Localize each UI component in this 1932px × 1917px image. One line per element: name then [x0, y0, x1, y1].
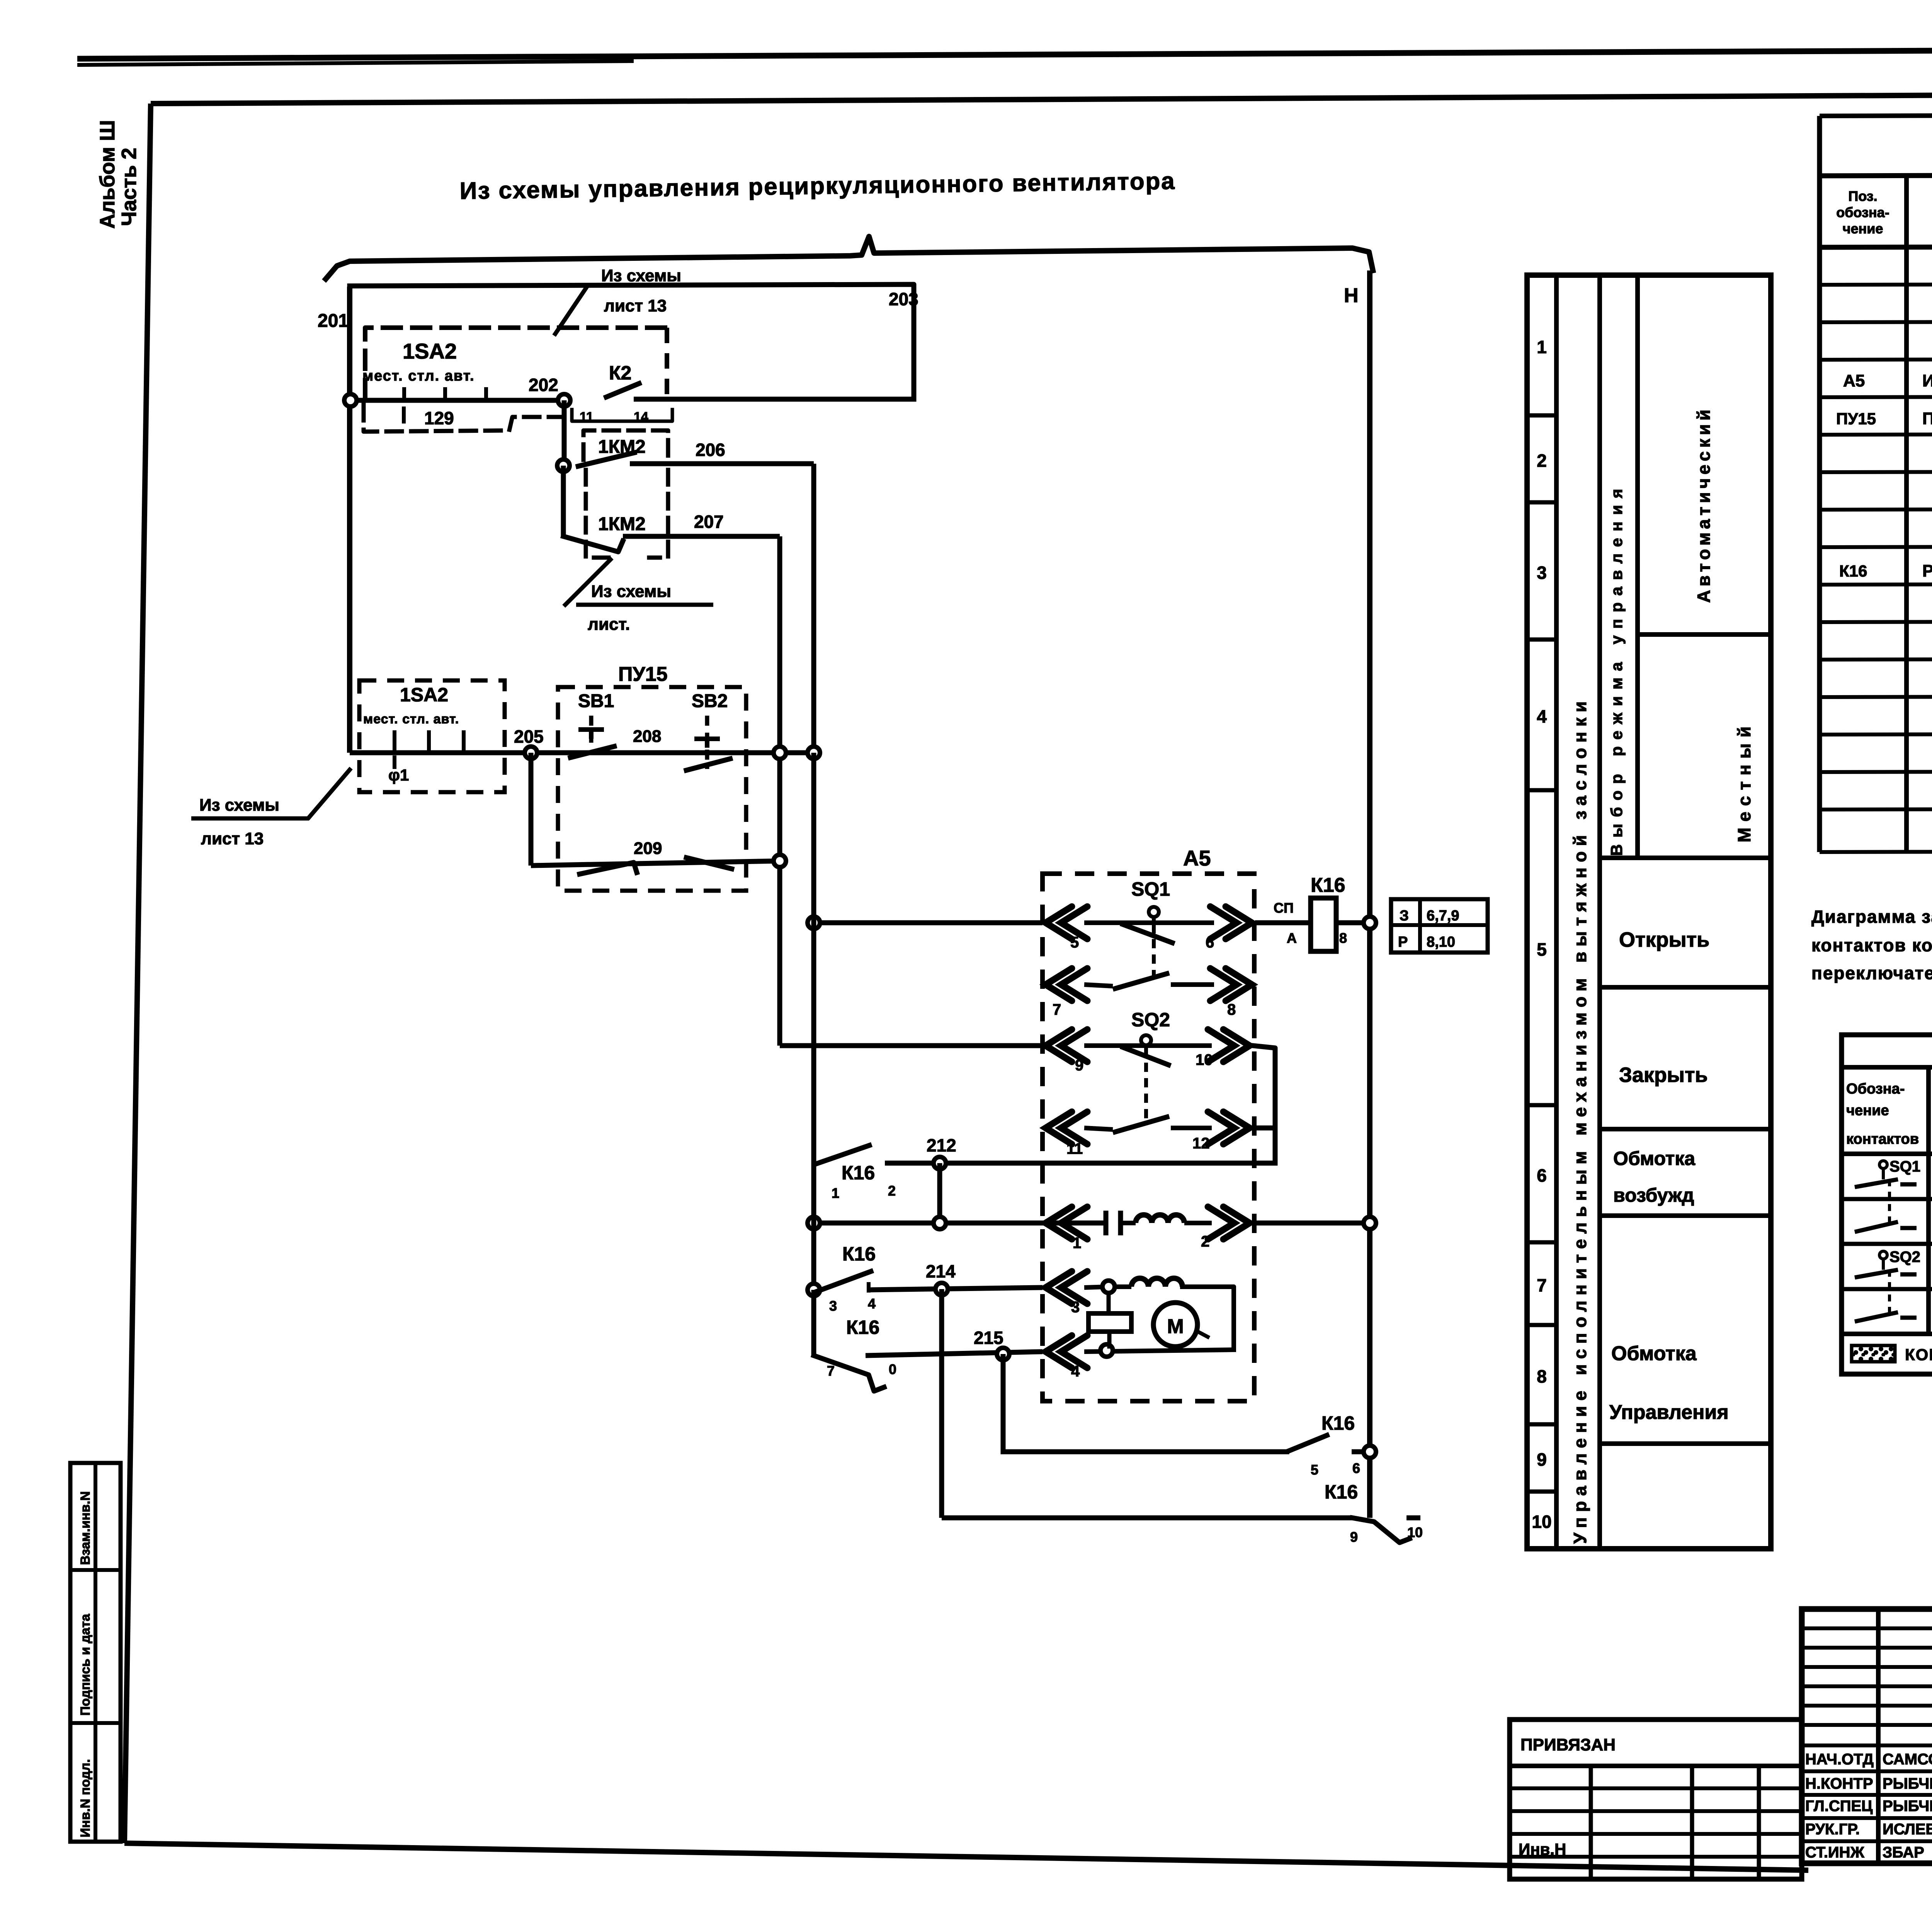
wire: main manual-control line net 205 — [350, 750, 814, 755]
svg-text:SQ1: SQ1 — [1889, 1158, 1920, 1175]
svg-text:207: 207 — [694, 512, 724, 532]
wire: coil to rail — [1336, 920, 1370, 925]
contact 1KM2 NC blade — [563, 536, 623, 552]
button station PU15 dashed box — [558, 687, 746, 891]
svg-text:К16: К16 — [1839, 562, 1867, 580]
node: junction 205 — [525, 747, 537, 759]
wire: left bus net 201 — [347, 287, 352, 753]
node: function table row number cells — [1527, 413, 1556, 418]
svg-text:214: 214 — [926, 1261, 956, 1281]
svg-text:А5: А5 — [1843, 371, 1865, 390]
wire: SB2 to V1/V2 — [726, 750, 814, 755]
wire: SQ2 second contact row 11-12 — [1046, 1112, 1087, 1144]
wire: riser 214 to K16 9-10 line — [939, 1289, 944, 1518]
wire: drop to net 207 — [561, 466, 566, 536]
node: junction on rail — [1364, 917, 1376, 929]
svg-text:209: 209 — [634, 839, 662, 858]
svg-text:ИСЛЕВА: ИСЛЕВА — [1883, 1821, 1932, 1838]
svg-text:Управления: Управления — [1609, 1401, 1729, 1424]
node: pointer "iz shemy list." — [565, 560, 611, 605]
svg-text:7: 7 — [1537, 1275, 1547, 1295]
svg-text:контактов: контактов — [1846, 1131, 1919, 1147]
svg-text:К16: К16 — [842, 1162, 875, 1184]
capacitor in excitation circuit — [1104, 1211, 1109, 1235]
node: legend kontakt zamknut — [1852, 1345, 1895, 1362]
wire: small terminal bracket under K2 — [572, 410, 672, 421]
svg-text:3: 3 — [1537, 563, 1547, 583]
svg-text:10: 10 — [1407, 1524, 1423, 1540]
svg-text:Р: Р — [1398, 934, 1408, 950]
svg-text:11: 11 — [1066, 1140, 1083, 1157]
wire: excitation winding line — [814, 1221, 1106, 1226]
svg-text:5: 5 — [1311, 1462, 1318, 1478]
svg-text:А: А — [1287, 930, 1297, 946]
svg-text:206: 206 — [696, 440, 725, 460]
svg-text:Из схемы: Из схемы — [601, 266, 681, 285]
svg-text:обозна-: обозна- — [1836, 204, 1889, 220]
svg-text:РУК.ГР.: РУК.ГР. — [1805, 1821, 1860, 1838]
switch 1SA2 lower section dashed box — [359, 680, 505, 792]
svg-text:3: 3 — [829, 1298, 837, 1314]
svg-text:А5: А5 — [1183, 846, 1211, 870]
svg-text:Реле РПУ-2-М36 440УЗБ, V-220: Реле РПУ-2-М36 440УЗБ, V-220 Б — [1922, 561, 1932, 580]
svg-text:212: 212 — [927, 1135, 956, 1155]
inductor: excitation winding — [1121, 1221, 1136, 1225]
svg-text:Н: Н — [1344, 284, 1359, 307]
wire: control winding top — [1084, 1287, 1109, 1288]
node: title block upper small rows — [1802, 1626, 1932, 1630]
wire: outer top border line — [77, 48, 1932, 59]
motor M — [1153, 1303, 1197, 1347]
svg-text:8: 8 — [1339, 930, 1347, 946]
svg-text:Из схемы: Из схемы — [199, 796, 279, 815]
svg-text:Подпись и дата: Подпись и дата — [78, 1613, 93, 1716]
svg-text:Н.КОНТР: Н.КОНТР — [1805, 1775, 1873, 1792]
svg-text:5: 5 — [1070, 934, 1079, 951]
svg-text:10: 10 — [1532, 1512, 1551, 1532]
wire: riser 215 to K16 5-6 line — [1001, 1354, 1006, 1452]
node: arrow pin 1 — [1046, 1207, 1087, 1239]
svg-text:З: З — [1400, 908, 1409, 924]
svg-text:СП: СП — [1274, 900, 1294, 916]
svg-text:5: 5 — [1537, 939, 1547, 959]
node: MEO table frame — [1842, 1035, 1932, 1374]
node: junction open line on V2 — [808, 917, 820, 929]
svg-text:ПУ15: ПУ15 — [1836, 410, 1876, 428]
svg-text:129: 129 — [424, 408, 454, 428]
svg-text:Инв.N подл.: Инв.N подл. — [78, 1759, 93, 1837]
wire: control winding bottom — [1084, 1350, 1234, 1352]
node: junction 202 — [558, 394, 570, 407]
svg-text:8: 8 — [1537, 1366, 1547, 1386]
node: junction brake tap — [1102, 1281, 1115, 1293]
svg-text:Часть 2: Часть 2 — [117, 148, 141, 226]
contact SB1 lower (NO) blade — [580, 862, 637, 874]
wire: 214 line to K16 9-10 — [942, 1516, 1352, 1521]
switch 1SA2 second row net 129 — [364, 405, 561, 432]
contact SQ1 symbol row1 — [1879, 1161, 1887, 1169]
node: function table frame — [1527, 275, 1771, 1549]
svg-text:202: 202 — [529, 375, 558, 395]
node: junction under brake — [1100, 1344, 1113, 1357]
svg-text:Взам.инв.N: Взам.инв.N — [78, 1491, 93, 1565]
node: signature rows — [1802, 1744, 1932, 1747]
svg-text:6: 6 — [1352, 1460, 1360, 1476]
svg-text:К16: К16 — [1311, 874, 1345, 896]
node: junction excitation on rail — [1364, 1217, 1376, 1229]
node: cell zakryt — [1600, 1127, 1771, 1131]
svg-text:9: 9 — [1350, 1529, 1358, 1545]
svg-text:φ1: φ1 — [388, 766, 409, 784]
svg-text:1SA2: 1SA2 — [403, 339, 457, 363]
svg-text:Обмотка: Обмотка — [1613, 1148, 1696, 1169]
svg-text:ПУ15: ПУ15 — [618, 663, 668, 685]
node: MEO row lines — [1842, 1197, 1932, 1201]
svg-text:Поз.: Поз. — [1848, 188, 1877, 204]
svg-text:К16: К16 — [842, 1243, 876, 1265]
wire: drop 212 to excitation row — [937, 1163, 942, 1223]
svg-text:1: 1 — [1073, 1235, 1081, 1252]
wire: open line from V2 to A5 — [814, 920, 1043, 925]
svg-text:1: 1 — [832, 1185, 839, 1201]
wire: drop from node 202 — [562, 400, 567, 466]
node: junction V2 excitation — [808, 1217, 820, 1229]
switch 1SA2 upper section dashed box — [365, 328, 667, 398]
node: title block left grid columns — [1876, 1609, 1881, 1863]
wire: net 208 — [611, 750, 692, 755]
svg-text:К16: К16 — [1321, 1412, 1355, 1434]
node: 1SA2 position ticks — [402, 387, 406, 400]
actuator A5 dashed enclosure — [1043, 874, 1254, 1401]
node: arrow pin 4 — [1046, 1335, 1087, 1368]
node: junction 209 on V1 — [774, 855, 786, 867]
node: bus corner to pointer — [309, 770, 350, 817]
svg-text:Диаграмма замыкания: Диаграмма замыкания — [1811, 907, 1932, 927]
contactor contact 1KM2 (NO) dashed box — [583, 430, 668, 460]
svg-text:3: 3 — [1071, 1299, 1080, 1316]
svg-text:чение: чение — [1846, 1102, 1889, 1119]
wire: net 202 after K2 to right riser — [634, 397, 914, 402]
svg-text:чение: чение — [1843, 221, 1883, 236]
wire: excitation to rail — [1253, 1221, 1370, 1226]
wire: net 214 — [869, 1288, 1043, 1290]
wire: net 215 — [866, 1352, 1043, 1356]
wire: to pin 2 — [1184, 1221, 1212, 1225]
node: cell otkryt — [1600, 985, 1771, 990]
contact SQ2 second row — [1855, 1312, 1898, 1322]
svg-text:1КМ2: 1КМ2 — [598, 514, 646, 534]
node: element list header band — [1820, 174, 1932, 176]
contact 1KM2 NO blade — [576, 452, 637, 467]
wire: outer top border second stroke — [77, 61, 634, 65]
svg-text:лист.: лист. — [588, 615, 630, 634]
svg-text:Обозна-: Обозна- — [1846, 1081, 1905, 1097]
wire: 215 self line to K16 5-6 — [1003, 1449, 1287, 1454]
wire: drawing frame top — [151, 92, 1932, 104]
wire: net 209 drop from 205 — [529, 753, 534, 866]
svg-text:6: 6 — [1537, 1165, 1547, 1186]
wire: overhead bracket of recirculation-fan subcircuit — [326, 236, 1373, 279]
wire: drawing frame bottom — [124, 1843, 1808, 1870]
svg-text:ЗБАР: ЗБАР — [1883, 1844, 1924, 1861]
node: element list table frame — [1817, 116, 1822, 852]
electromagnetic brake of A5 — [1107, 1293, 1111, 1313]
node: cell avtomaticheskiy — [1638, 632, 1771, 637]
svg-text:6,7,9: 6,7,9 — [1427, 908, 1459, 924]
wire: net 206 riser (V2) — [811, 464, 816, 753]
contact SQ1 second row — [1855, 1222, 1898, 1232]
node: arrow into A5 pin 5 — [1046, 907, 1087, 939]
svg-text:лист 13: лист 13 — [201, 829, 264, 848]
svg-text:215: 215 — [974, 1328, 1003, 1348]
svg-text:7: 7 — [1053, 1001, 1061, 1018]
svg-text:КОНТАКТ ЗАМКНУТ: КОНТАКТ ЗАМКНУТ — [1905, 1345, 1932, 1364]
wire: right rail (net N) — [1367, 270, 1372, 1518]
svg-text:208: 208 — [633, 727, 661, 746]
svg-text:ПРИВЯЗАН: ПРИВЯЗАН — [1520, 1735, 1616, 1754]
wire: net СП to K16 coil — [1255, 920, 1310, 925]
node: cell obmotka upravleniya — [1600, 1441, 1771, 1446]
svg-text:4: 4 — [868, 1296, 876, 1311]
node: annex privyazan table — [1510, 1720, 1802, 1879]
svg-text:Исполнительный механизм МЭО-: Исполнительный механизм МЭО-4/6,3-0,63 — [1922, 371, 1932, 390]
node: arrow pin 3 — [1046, 1271, 1087, 1304]
svg-text:205: 205 — [514, 726, 544, 747]
wire: net 212 — [885, 1161, 1275, 1166]
svg-text:мест. стл. авт.: мест. стл. авт. — [362, 368, 475, 384]
wire: V2 down to 215 — [811, 1290, 816, 1356]
svg-text:САМСОНОВ: САМСОНОВ — [1883, 1751, 1932, 1768]
svg-text:ГЛ.СПЕЦ: ГЛ.СПЕЦ — [1805, 1798, 1872, 1815]
svg-text:4: 4 — [1537, 706, 1547, 726]
node: junction 212-drop on excitation line — [934, 1217, 946, 1229]
svg-text:203: 203 — [889, 289, 918, 309]
contact SB2 lower (NC) blade — [684, 857, 734, 869]
svg-text:9: 9 — [1537, 1449, 1547, 1470]
svg-text:Открыть: Открыть — [1619, 928, 1709, 951]
svg-text:К16: К16 — [846, 1317, 879, 1338]
contact SQ2 symbol row3 — [1879, 1251, 1887, 1259]
svg-text:1: 1 — [1537, 337, 1547, 357]
svg-text:мест. стл. авт.: мест. стл. авт. — [363, 712, 459, 726]
node: junction V2 on manual line — [808, 747, 820, 759]
node: element list column lines — [1904, 176, 1909, 852]
svg-text:SB1: SB1 — [578, 691, 614, 711]
svg-text:лист 13: лист 13 — [604, 296, 667, 315]
svg-text:возбужд: возбужд — [1613, 1184, 1694, 1206]
node: junction 212 — [934, 1157, 946, 1169]
svg-text:201: 201 — [318, 311, 349, 331]
svg-text:М: М — [1167, 1315, 1184, 1338]
svg-text:Закрыть: Закрыть — [1619, 1063, 1708, 1087]
svg-text:4: 4 — [1071, 1363, 1080, 1380]
svg-text:8: 8 — [1227, 1001, 1236, 1018]
svg-text:переключателя клапана: переключателя клапана — [1811, 963, 1932, 983]
wire: V2 from excitation tap down to 215 — [811, 753, 816, 1223]
node: K16 contact usage table — [1391, 899, 1488, 953]
svg-text:2: 2 — [1537, 451, 1547, 471]
wire: net 207 — [623, 534, 780, 539]
contactor contact 1KM2 (NC) dashed box — [586, 470, 613, 558]
wire: close line from V1 — [780, 1043, 1043, 1048]
svg-text:К16: К16 — [1325, 1481, 1358, 1503]
wire: net 201 to node 202 — [350, 398, 564, 403]
svg-text:0: 0 — [889, 1361, 896, 1377]
svg-text:Альбом Ш: Альбом Ш — [96, 120, 119, 229]
node: cell mestnyy — [1600, 856, 1771, 860]
svg-text:Обмотка: Обмотка — [1611, 1342, 1697, 1365]
svg-text:2: 2 — [888, 1183, 896, 1199]
svg-text:SQ1: SQ1 — [1131, 878, 1170, 900]
inductor: control winding — [1113, 1284, 1131, 1289]
svg-text:8,10: 8,10 — [1427, 934, 1455, 950]
svg-text:Инв.Н: Инв.Н — [1519, 1840, 1566, 1858]
svg-text:контактов конечного: контактов конечного — [1811, 935, 1932, 955]
svg-text:1SA2: 1SA2 — [400, 684, 448, 706]
svg-text:7: 7 — [827, 1363, 835, 1379]
svg-text:9: 9 — [1075, 1057, 1083, 1074]
wire: net 203 top run — [350, 284, 914, 399]
svg-text:SB2: SB2 — [692, 691, 728, 711]
svg-text:К2: К2 — [609, 362, 631, 384]
wire: pin 12 stub to riser — [1253, 1126, 1275, 1131]
node: junction 215 — [997, 1348, 1009, 1360]
node: junction 5-6 on rail — [1364, 1446, 1376, 1458]
svg-text:Из схемы: Из схемы — [591, 582, 671, 601]
node: cell obmotka vozbuzhd — [1600, 1213, 1771, 1218]
wire: loop right side — [1182, 1287, 1234, 1350]
wire: pin 10 to outer riser — [1253, 1046, 1275, 1163]
svg-text:SQ2: SQ2 — [1131, 1009, 1170, 1031]
node: junction V1 on manual line — [774, 747, 786, 759]
node: left margin stamp boxes — [70, 1463, 121, 1842]
node: junction 214 — [935, 1283, 948, 1295]
node: junction 214 start — [808, 1284, 820, 1296]
node: element list row lines — [1820, 283, 1932, 285]
node: junction net 206 — [557, 459, 570, 472]
wire: drawing frame left — [124, 104, 151, 1843]
wire: net 207 riser (V1) — [777, 536, 782, 1046]
svg-text:РЫБЧЕНКО: РЫБЧЕНКО — [1883, 1798, 1932, 1815]
svg-text:СТ.ИНЖ: СТ.ИНЖ — [1805, 1844, 1865, 1861]
svg-text:Пост управления ПКЕ 222-2УЗ: Пост управления ПКЕ 222-2УЗ — [1922, 409, 1932, 428]
node: title block outer frame — [1802, 1609, 1932, 1863]
wire: net 206 — [630, 461, 814, 466]
wire: SQ1 second contact row 7-8 — [1046, 968, 1087, 1001]
svg-text:НАЧ.ОТД: НАЧ.ОТД — [1805, 1751, 1874, 1768]
svg-text:SQ2: SQ2 — [1889, 1249, 1920, 1266]
node: junction on bus — [344, 394, 357, 407]
svg-text:РЫБЧЕНКО: РЫБЧЕНКО — [1883, 1775, 1932, 1792]
wire: net 209 — [531, 861, 780, 866]
